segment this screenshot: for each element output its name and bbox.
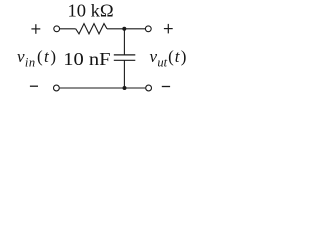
minus sign left <box>30 85 38 87</box>
svg-text:vin(t): vin(t) <box>17 47 56 70</box>
svg-text:vut(t): vut(t) <box>150 47 187 70</box>
minus sign right <box>162 86 170 88</box>
node junction top <box>122 27 126 31</box>
wire <box>107 28 124 30</box>
node junction bottom <box>123 86 127 90</box>
wire <box>124 28 145 30</box>
wire <box>60 28 76 30</box>
wire <box>123 29 125 55</box>
resistor R1 <box>76 24 107 34</box>
svg-text:10 nF: 10 nF <box>63 49 110 69</box>
wire <box>60 87 146 89</box>
terminal circle top-right <box>145 26 151 32</box>
capacitor C1 <box>114 55 136 60</box>
terminal circle bottom-left <box>54 85 60 91</box>
plus sign left <box>31 24 40 34</box>
plus sign right <box>164 24 173 34</box>
terminal circle top-left <box>54 26 60 32</box>
terminal circle bottom-right <box>146 85 152 91</box>
svg-text:10 kΩ: 10 kΩ <box>68 1 114 21</box>
wire <box>123 60 125 88</box>
